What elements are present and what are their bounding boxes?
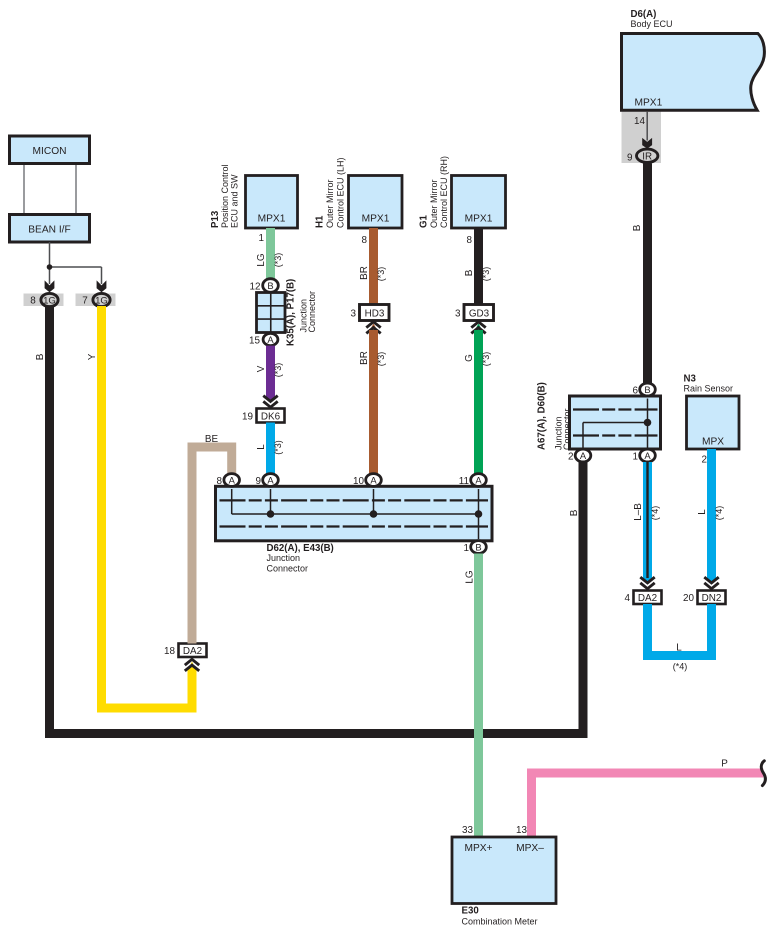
- svg-text:1: 1: [633, 452, 639, 463]
- svg-text:Junction: Junction: [267, 553, 301, 563]
- svg-text:BEAN I/F: BEAN I/F: [28, 224, 70, 235]
- svg-text:K35(A), P17(B): K35(A), P17(B): [286, 279, 297, 346]
- svg-text:BR: BR: [359, 266, 370, 280]
- svg-text:A: A: [475, 474, 482, 485]
- svg-text:A: A: [370, 474, 377, 485]
- svg-text:B: B: [267, 280, 273, 291]
- svg-text:15: 15: [249, 335, 260, 346]
- svg-text:8: 8: [362, 235, 368, 246]
- svg-text:Control ECU (RH): Control ECU (RH): [439, 156, 449, 228]
- svg-text:HD3: HD3: [365, 309, 385, 320]
- svg-text:L: L: [256, 444, 267, 450]
- svg-text:Connector: Connector: [267, 563, 309, 573]
- svg-text:B: B: [569, 509, 580, 516]
- svg-text:DK6: DK6: [261, 411, 281, 422]
- svg-text:7: 7: [82, 296, 88, 307]
- svg-text:8: 8: [217, 476, 223, 487]
- svg-text:Y: Y: [87, 353, 98, 360]
- svg-text:3: 3: [455, 309, 461, 320]
- svg-text:E30: E30: [462, 906, 479, 917]
- svg-text:8: 8: [30, 296, 36, 307]
- svg-text:1: 1: [259, 233, 265, 244]
- svg-text:B: B: [475, 541, 481, 552]
- svg-text:18: 18: [164, 646, 175, 657]
- svg-text:G1: G1: [418, 214, 429, 228]
- svg-text:(*3): (*3): [481, 267, 491, 282]
- svg-text:8: 8: [467, 235, 473, 246]
- svg-text:BR: BR: [359, 351, 370, 365]
- svg-text:IR: IR: [642, 151, 652, 162]
- svg-text:(*3): (*3): [273, 440, 283, 455]
- svg-text:10: 10: [353, 476, 364, 487]
- svg-text:(*3): (*3): [273, 253, 283, 268]
- svg-text:Combination Meter: Combination Meter: [462, 917, 538, 927]
- svg-text:6: 6: [633, 386, 639, 397]
- svg-text:33: 33: [462, 825, 473, 836]
- svg-text:MPX1: MPX1: [258, 214, 286, 225]
- svg-text:4: 4: [625, 593, 631, 604]
- svg-text:(*4): (*4): [673, 662, 688, 672]
- svg-text:MPX–: MPX–: [516, 843, 544, 854]
- svg-text:LG: LG: [465, 570, 476, 583]
- svg-text:LG: LG: [256, 253, 267, 266]
- svg-text:(*4): (*4): [714, 506, 724, 521]
- svg-text:3: 3: [351, 309, 357, 320]
- svg-text:(*3): (*3): [376, 267, 386, 282]
- svg-text:MPX+: MPX+: [464, 843, 492, 854]
- svg-text:Control ECU (LH): Control ECU (LH): [335, 157, 345, 228]
- svg-text:G: G: [464, 354, 475, 362]
- svg-text:H1: H1: [314, 215, 325, 228]
- svg-text:A: A: [267, 334, 274, 345]
- svg-text:(*4): (*4): [650, 506, 660, 521]
- svg-text:Connector: Connector: [562, 408, 572, 450]
- svg-text:L: L: [676, 643, 682, 654]
- svg-text:2: 2: [702, 455, 708, 466]
- svg-text:A67(A), D60(B): A67(A), D60(B): [537, 382, 548, 450]
- svg-text:V: V: [256, 365, 267, 372]
- svg-text:BE: BE: [205, 434, 219, 445]
- svg-text:L–B: L–B: [633, 503, 644, 521]
- svg-text:(*3): (*3): [376, 352, 386, 367]
- svg-text:MICON: MICON: [33, 146, 67, 157]
- svg-text:Connector: Connector: [307, 291, 317, 333]
- svg-text:9: 9: [627, 153, 633, 164]
- svg-text:DA2: DA2: [638, 593, 657, 604]
- svg-text:12: 12: [250, 281, 261, 292]
- svg-text:B: B: [644, 384, 650, 395]
- svg-text:Outer Mirror: Outer Mirror: [325, 179, 335, 228]
- svg-text:20: 20: [683, 593, 694, 604]
- svg-text:(*3): (*3): [481, 352, 491, 367]
- svg-text:MPX: MPX: [702, 437, 724, 448]
- svg-text:B: B: [632, 224, 643, 231]
- svg-text:1G: 1G: [43, 295, 56, 306]
- svg-text:MPX1: MPX1: [465, 214, 493, 225]
- svg-text:9: 9: [256, 476, 262, 487]
- svg-text:A: A: [644, 450, 651, 461]
- svg-text:(*3): (*3): [273, 363, 283, 378]
- svg-text:19: 19: [242, 411, 253, 422]
- svg-text:MPX1: MPX1: [362, 214, 390, 225]
- svg-text:GD3: GD3: [469, 309, 490, 320]
- svg-text:DN2: DN2: [702, 593, 722, 604]
- svg-text:B: B: [35, 353, 46, 360]
- svg-text:B: B: [464, 269, 475, 276]
- svg-text:13: 13: [516, 825, 527, 836]
- svg-text:ECU and SW: ECU and SW: [229, 174, 239, 228]
- svg-text:MPX1: MPX1: [635, 98, 663, 109]
- svg-text:14: 14: [634, 116, 645, 127]
- svg-text:L: L: [697, 509, 708, 515]
- svg-text:11: 11: [459, 476, 470, 487]
- svg-text:A: A: [580, 450, 587, 461]
- svg-text:Body ECU: Body ECU: [631, 19, 673, 29]
- svg-text:A: A: [267, 474, 274, 485]
- svg-text:DA2: DA2: [183, 646, 202, 657]
- svg-text:2: 2: [568, 452, 574, 463]
- svg-text:1G: 1G: [95, 295, 108, 306]
- svg-text:1: 1: [464, 543, 470, 554]
- svg-text:Rain Sensor: Rain Sensor: [684, 383, 734, 393]
- svg-text:Outer Mirror: Outer Mirror: [429, 179, 439, 228]
- svg-text:P: P: [721, 759, 728, 770]
- svg-text:A: A: [229, 474, 236, 485]
